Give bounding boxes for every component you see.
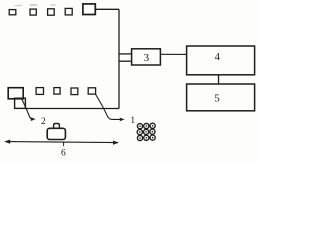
arrow to label 1 [95,94,120,119]
arrow to label 2 [22,99,33,120]
svg-text:2: 2 [41,117,46,127]
wire box4 to box5 [218,75,220,84]
bottom pallet square 3 [71,88,78,95]
large square (station) [83,4,95,15]
top pallet square 1 [9,10,16,15]
wire box3 to box4 [160,53,186,55]
svg-text:5: 5 [214,92,220,104]
svg-text:3: 3 [144,52,150,64]
bottom-left upper square [8,88,23,99]
bottom-left lower square [15,98,26,108]
box 3 [132,49,161,65]
top pallet square 3 [48,9,55,15]
stamp object knob [54,124,60,129]
svg-text:1: 1 [130,116,135,126]
top pallet square 2 [30,9,36,15]
cable bundle circles [137,123,155,140]
svg-text:4: 4 [214,51,220,63]
top pallet square 4 [65,8,72,15]
dimension line 6 [6,142,118,143]
bottom wire horizontal [25,108,119,110]
svg-text:6: 6 [61,149,66,159]
wire top horizontal [95,8,119,10]
dimension tick [63,142,65,146]
bottom pallet square 2 [54,88,60,95]
faint scan smudges top edge [15,5,56,6]
bottom pallet square 1 [36,88,43,95]
stamp object body [47,128,65,139]
wire vertical main [118,9,120,108]
wire stub lower into box 3 [119,60,132,62]
box 4 [187,46,255,75]
box 5 [187,84,255,111]
wire stub upper into box 3 [119,53,132,55]
bottom pallet square 4 [88,88,95,94]
